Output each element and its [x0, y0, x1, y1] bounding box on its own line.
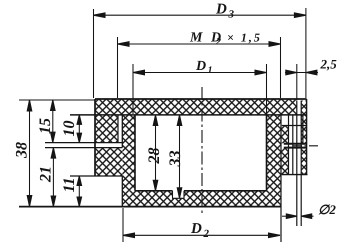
outline: boss inner vertical [288, 115, 290, 175]
extension line: D2 left [122, 208, 124, 242]
svg-text:33: 33 [167, 151, 184, 168]
extension line: D3 left [93, 9, 95, 98]
outline: bottom step edge [121, 176, 123, 207]
hatched section: boss inner wall lower [281, 148, 289, 174]
svg-text:1: 1 [208, 65, 213, 76]
dimension M D2 x 1.5 [118, 43, 281, 45]
outline: slit right wall upper [121, 115, 123, 148]
extension line: part top left [19, 99, 95, 101]
svg-text:D: D [215, 2, 227, 18]
dimension 11 [78, 176, 80, 207]
hatched section: band right ring [301, 101, 306, 144]
outline: phi2 hole right wall with extension below [300, 101, 302, 227]
outline: left wall bottom step [70, 175, 122, 177]
svg-text:3: 3 [228, 9, 235, 21]
dimension D1 [133, 72, 267, 74]
svg-text:D: D [195, 59, 206, 74]
svg-text:28: 28 [146, 148, 163, 165]
svg-text:2: 2 [215, 37, 221, 48]
outline: left wall outer [94, 99, 96, 176]
svg-text:10: 10 [61, 121, 78, 137]
svg-text:2: 2 [203, 228, 210, 240]
svg-text:38: 38 [14, 142, 31, 159]
hatched section: left wall upper left of slit [95, 115, 118, 143]
dimension phi2 with outside arrows [282, 215, 297, 217]
outline: cavity right wall [266, 115, 268, 191]
dimension 33 inside cavity [179, 115, 181, 198]
dimension 38 [29, 100, 31, 207]
dimension 21 [52, 148, 54, 207]
extension line: MD2 right [280, 37, 282, 98]
outline: top edge [95, 98, 307, 100]
hatched section: boss outer ring lower [301, 148, 306, 174]
extension line: D3 and 2.5 right [305, 8, 307, 98]
dimension 28 inside cavity [155, 115, 157, 191]
outline: slit bottom edge with extension [45, 147, 122, 149]
outline: phi2 hole left wall with extension below [296, 101, 298, 227]
dimension 10 [78, 115, 80, 143]
hatched section: left wall below slit [95, 148, 122, 176]
dimension 2.5 with outside arrows [285, 72, 318, 74]
centerline: vertical axis [201, 87, 203, 214]
outline: slit top edge with extension [45, 142, 122, 144]
hatched section: left wall inner column [122, 115, 135, 191]
dimension 15 [52, 100, 54, 143]
outline: boss outer surface [306, 99, 308, 175]
hatched section: top flange band [95, 99, 297, 115]
svg-text:2,5: 2,5 [320, 57, 338, 72]
svg-text:21: 21 [38, 166, 55, 183]
outline: boss mid vertical [292, 115, 294, 175]
hatched section: bottom band with notch [122, 191, 281, 207]
outline: horizontal hole bottom edge [284, 147, 307, 149]
svg-text:× 1,5: × 1,5 [227, 31, 262, 45]
centerline: boss hole axis [293, 145, 321, 147]
hatched section: right wall [267, 115, 282, 191]
outline: boss outer inner line [302, 115, 304, 143]
extension line: D1 right [266, 64, 268, 114]
dimension D2 bottom [123, 234, 280, 236]
extension line: 2.5 left above boss [296, 64, 298, 100]
svg-text:D: D [190, 221, 202, 237]
outline: part bottom edge with extension [19, 206, 281, 208]
svg-text:15: 15 [37, 118, 54, 134]
outline: horizontal hole top edge [284, 143, 307, 145]
hatched section: boss inner wall upper [281, 126, 289, 144]
outline: top band bottom / cavity ceiling [70, 114, 307, 116]
outline: vertical slit left wall [117, 115, 119, 143]
dimension D3 [94, 14, 306, 16]
outline: floor notch [173, 191, 185, 199]
outline: boss step line [282, 125, 307, 127]
outline: boss bottom edge [282, 174, 308, 176]
extension line: MD2 left [117, 37, 119, 98]
outline: cavity floor [135, 190, 267, 192]
extension line: D1 left [132, 64, 134, 114]
svg-text:∅2: ∅2 [318, 202, 336, 217]
outline: cavity left wall [134, 115, 136, 191]
outline: right wall outer surface extending down as D2 extension [280, 115, 282, 242]
svg-text:11: 11 [61, 177, 78, 192]
